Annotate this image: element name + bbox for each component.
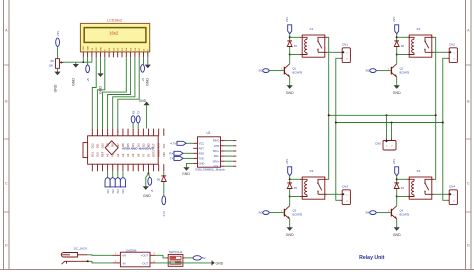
svg-text:RST: RST xyxy=(199,146,205,150)
svg-text:RX: RX xyxy=(169,152,173,156)
svg-text:SPK-: SPK- xyxy=(213,164,219,168)
net flag IN4 below Arduino xyxy=(120,171,125,193)
svg-text:RST2: RST2 xyxy=(152,150,156,157)
LCD pins 1-16 xyxy=(83,52,148,57)
svg-text:DTR: DTR xyxy=(214,144,219,148)
svg-text:5V: 5V xyxy=(146,154,150,157)
svg-text:R6: R6 xyxy=(50,59,54,63)
svg-text:TX: TX xyxy=(137,111,141,115)
svg-text:IN3: IN3 xyxy=(116,189,120,194)
power flag +5 at LCD VDD xyxy=(86,57,90,81)
svg-text:D3: D3 xyxy=(136,143,140,147)
LCD display LCD1 label xyxy=(107,19,122,23)
svg-text:IN1: IN1 xyxy=(106,189,110,194)
svg-text:3V3: 3V3 xyxy=(95,152,99,157)
Arduino bottom pin labels xyxy=(90,149,165,157)
U1 left pin names xyxy=(199,141,205,165)
transistor Q4 BC547B xyxy=(388,197,409,228)
svg-text:BC547B: BC547B xyxy=(400,213,410,217)
svg-text:A2: A2 xyxy=(116,153,120,157)
svg-text:DC_JACK: DC_JACK xyxy=(74,246,88,250)
svg-text:4.7V: 4.7V xyxy=(170,142,176,146)
connector CN4 xyxy=(447,184,457,204)
svg-text:VCC: VCC xyxy=(199,141,205,145)
svg-text:D4: D4 xyxy=(401,186,405,190)
wire +5V rail to relay K3 coil xyxy=(290,179,303,196)
svg-text:CN1: CN1 xyxy=(342,42,348,46)
wire +5V rail to relay K2 coil xyxy=(397,37,410,54)
svg-text:Q4: Q4 xyxy=(400,209,404,213)
net flag 4.7V below diode D6 xyxy=(162,182,166,217)
wire bus CN pin2 net xyxy=(335,122,444,124)
svg-text:CN3: CN3 xyxy=(342,184,348,188)
svg-text:RX0: RX0 xyxy=(157,143,161,149)
svg-text:D1: D1 xyxy=(294,44,298,48)
svg-text:+OUT: +OUT xyxy=(141,254,148,258)
diode D6 below Arduino VIN pin xyxy=(157,171,166,181)
ground GND at LM2596 -OUT xyxy=(156,260,224,265)
svg-text:U1: U1 xyxy=(206,131,210,135)
svg-text:GND: GND xyxy=(199,162,205,166)
relay K2 xyxy=(409,27,434,57)
wire LCD RS to Arduino xyxy=(92,57,96,128)
svg-text:BC547B: BC547B xyxy=(400,71,410,75)
svg-text:LCD16x2: LCD16x2 xyxy=(107,19,122,23)
ground GND at U1 GND pin xyxy=(182,163,193,176)
svg-text:VSS: VSS xyxy=(83,46,85,51)
svg-text:SPK+: SPK+ xyxy=(213,159,220,163)
transistor Q3 BC547B xyxy=(281,197,302,228)
svg-text:D2: D2 xyxy=(141,143,145,147)
svg-text:CN4: CN4 xyxy=(449,184,455,188)
svg-text:TX: TX xyxy=(170,157,174,161)
svg-text:TX1: TX1 xyxy=(162,143,166,148)
wire relay K2 NO contact to CN2 pin1 xyxy=(434,51,447,53)
net flag 4.7V at U1 VCC xyxy=(170,141,193,145)
net flag +5 and ground below Arduino 5V pin xyxy=(143,171,154,198)
net flag IN1 below Arduino xyxy=(105,171,110,193)
svg-text:D11: D11 xyxy=(95,143,99,148)
connector DC_JACK barrel xyxy=(61,253,78,265)
Arduino top pin labels xyxy=(90,143,165,149)
net flag IN3 below Arduino xyxy=(115,171,120,193)
svg-text:REF: REF xyxy=(101,151,105,157)
Arduino top pins xyxy=(92,129,163,136)
svg-text:4.7V: 4.7V xyxy=(162,211,166,217)
ground GND at LCD K xyxy=(145,57,151,86)
svg-text:MIC+: MIC+ xyxy=(213,149,220,153)
svg-text:BC547B: BC547B xyxy=(293,213,303,217)
svg-text:GSM_SIM800L_Module: GSM_SIM800L_Module xyxy=(195,168,225,172)
net flag IN2 at Q2 base xyxy=(366,69,391,73)
wire relay K2 common down to K4 common xyxy=(434,37,436,179)
wire LCD VSS/V0 to contrast net xyxy=(63,57,92,63)
svg-text:Q2: Q2 xyxy=(400,67,404,71)
svg-text:BC547B: BC547B xyxy=(293,71,303,75)
MCU module Arduino Nano V3 body xyxy=(83,136,158,164)
svg-text:+5V: +5V xyxy=(56,31,60,36)
svg-text:A1: A1 xyxy=(111,153,115,157)
caption Relay Unit xyxy=(359,255,385,261)
LCD display LCD1 body xyxy=(80,23,149,52)
svg-text:MIC-: MIC- xyxy=(214,154,220,158)
connector CN1 xyxy=(340,42,350,62)
svg-text:IN1: IN1 xyxy=(259,70,263,73)
U1 left pins xyxy=(193,143,197,163)
net flag IN1 at Q1 base xyxy=(259,69,284,73)
net flag IN3 at Q3 base xyxy=(259,211,284,215)
wire CN2 pin2 down to CN4 pin2 xyxy=(443,58,448,200)
regulator module LM2596 xyxy=(115,248,156,266)
svg-text:A3: A3 xyxy=(121,153,125,157)
power flag +5V for relay K1 xyxy=(285,17,292,38)
svg-text:K2: K2 xyxy=(417,27,421,31)
svg-text:Q3: Q3 xyxy=(293,209,297,213)
svg-text:K3: K3 xyxy=(310,169,314,173)
svg-text:10K: 10K xyxy=(49,63,54,67)
wire relay K1 NO contact to CN1 pin1 xyxy=(327,51,340,53)
svg-text:Q1: Q1 xyxy=(293,67,297,71)
wire DC_JACK to LM2596 xyxy=(77,255,115,263)
svg-text:RST: RST xyxy=(152,143,156,149)
svg-text:GND: GND xyxy=(139,99,147,103)
power flag +5V for relay K3 xyxy=(285,159,292,180)
svg-text:Relay Unit: Relay Unit xyxy=(359,255,385,261)
svg-text:+5V: +5V xyxy=(392,17,396,22)
svg-text:A7: A7 xyxy=(141,153,145,157)
svg-text:D10: D10 xyxy=(101,143,105,148)
svg-text:D: D xyxy=(467,243,470,247)
wire relay K1 common down to K3 common xyxy=(327,37,329,179)
svg-text:D5: D5 xyxy=(126,143,130,147)
svg-text:+5V: +5V xyxy=(392,159,396,164)
relay K4 xyxy=(409,169,434,199)
diode D3 flyback for K3 xyxy=(287,178,297,197)
ground GND under Q3 xyxy=(286,227,294,237)
ground GND under Q1 xyxy=(286,85,294,95)
svg-text:+IN: +IN xyxy=(122,254,126,258)
svg-text:IN2: IN2 xyxy=(366,70,370,73)
ground GND at LCD RW xyxy=(97,57,103,94)
svg-text:GND: GND xyxy=(286,91,294,95)
wire LCD E to Arduino xyxy=(97,57,104,128)
ground GND under potentiometer xyxy=(53,68,60,92)
ground GND under LCD pin1 xyxy=(72,62,79,86)
net flag 5V after switch xyxy=(185,256,206,260)
svg-text:GND: GND xyxy=(182,172,190,176)
svg-text:GND: GND xyxy=(393,91,401,95)
wire bus common contacts xyxy=(328,114,437,116)
svg-text:SWITCH1: SWITCH1 xyxy=(169,250,183,254)
ground GND above Arduino GND pin xyxy=(139,99,150,128)
wire LCD D6 to Arduino xyxy=(113,57,135,128)
diode D1 flyback for K1 xyxy=(287,36,297,55)
net flag TX above Arduino xyxy=(136,111,140,129)
relay K3 xyxy=(302,169,327,199)
svg-text:D6: D6 xyxy=(121,143,125,147)
wire LCD D7 to Arduino xyxy=(118,57,139,128)
svg-text:16x2: 16x2 xyxy=(109,30,119,35)
svg-text:GND2: GND2 xyxy=(157,149,161,157)
svg-text:+5: +5 xyxy=(86,78,90,82)
transistor Q1 BC547B xyxy=(281,55,302,86)
svg-text:IN4: IN4 xyxy=(121,189,125,194)
LCD pin name labels xyxy=(83,46,150,51)
svg-text:TXD: TXD xyxy=(199,157,204,161)
ground GND under Q4 xyxy=(393,227,401,237)
svg-text:A4: A4 xyxy=(126,153,130,157)
svg-text:CN2: CN2 xyxy=(449,42,455,46)
svg-text:A0: A0 xyxy=(106,153,110,157)
svg-text:GND: GND xyxy=(146,143,150,149)
svg-text:IN4: IN4 xyxy=(366,212,370,215)
net flag RX above Arduino xyxy=(131,110,135,128)
svg-text:D4: D4 xyxy=(131,143,135,147)
svg-text:+5V: +5V xyxy=(285,17,289,22)
svg-text:GND: GND xyxy=(393,233,401,237)
svg-text:C: C xyxy=(5,181,8,185)
svg-text:D2: D2 xyxy=(401,44,405,48)
svg-text:IN2: IN2 xyxy=(111,189,115,194)
wire +5V rail to relay K4 coil xyxy=(397,179,410,196)
wire LCD D4 to Arduino xyxy=(103,57,127,128)
svg-text:+5: +5 xyxy=(141,78,145,82)
svg-text:K1: K1 xyxy=(310,27,314,31)
svg-text:GND: GND xyxy=(53,84,57,92)
svg-text:RS: RS xyxy=(96,47,98,51)
svg-text:IN3: IN3 xyxy=(259,212,263,215)
U1 right pins with stubs xyxy=(221,141,237,167)
svg-text:D3: D3 xyxy=(294,186,298,190)
IC U1 GSM module body xyxy=(195,131,225,172)
relay K1 xyxy=(302,27,327,57)
svg-text:D9: D9 xyxy=(106,143,110,147)
net flag IN4 at Q4 base xyxy=(366,211,391,215)
power flag +5 at LCD A xyxy=(141,57,145,81)
svg-text:C: C xyxy=(467,181,470,185)
switch SWITCH1 xyxy=(166,250,185,266)
svg-text:CN5: CN5 xyxy=(375,142,381,146)
wire LM2596 +OUT to switch xyxy=(156,255,167,258)
wire relay K4 NO contact to CN4 pin1 xyxy=(434,193,447,195)
svg-text:RING: RING xyxy=(213,139,219,143)
svg-text:A6: A6 xyxy=(136,153,140,157)
svg-text:-OUT: -OUT xyxy=(142,261,149,265)
connector CN5 xyxy=(375,115,396,150)
svg-text:VIN: VIN xyxy=(162,152,166,157)
Arduino bottom pins xyxy=(92,164,163,171)
net flag IN2 below Arduino xyxy=(110,171,115,193)
svg-text:D6: D6 xyxy=(157,178,161,182)
svg-text:GND: GND xyxy=(216,261,224,265)
ground GND under Q2 xyxy=(393,85,401,95)
diode D2 flyback for K2 xyxy=(394,36,404,55)
transistor Q2 BC547B xyxy=(388,55,409,86)
net flag RX at U1 RXD xyxy=(169,151,193,155)
svg-text:D8: D8 xyxy=(111,143,115,147)
svg-text:A5: A5 xyxy=(131,153,135,157)
net flag TX at U1 TXD xyxy=(170,156,193,160)
svg-text:5V: 5V xyxy=(202,256,206,260)
wire +5V rail to relay K1 coil xyxy=(290,37,303,54)
potentiometer R6 10K xyxy=(49,59,64,69)
connector CN3 xyxy=(340,184,350,204)
wire CN1 pin2 down to CN3 pin2 xyxy=(336,58,341,200)
wire LCD D5 to Arduino xyxy=(108,57,131,128)
power flag +5V for relay K4 xyxy=(392,159,399,180)
svg-text:RX: RX xyxy=(131,110,135,114)
U1 right pin names xyxy=(213,139,220,169)
svg-text:GND: GND xyxy=(286,233,294,237)
svg-text:+5V: +5V xyxy=(285,159,289,164)
svg-text:-IN: -IN xyxy=(122,261,126,265)
svg-text:K4: K4 xyxy=(417,169,421,173)
power flag +5V for relay K2 xyxy=(392,17,399,38)
connector DC_JACK label xyxy=(74,246,88,250)
svg-text:GND: GND xyxy=(146,78,150,86)
svg-text:GND: GND xyxy=(72,78,76,86)
diode D4 flyback for K4 xyxy=(394,178,404,197)
svg-text:D12: D12 xyxy=(90,143,94,148)
svg-text:D13: D13 xyxy=(90,152,94,157)
svg-text:VDD: VDD xyxy=(88,46,90,51)
svg-text:RXD: RXD xyxy=(199,151,205,155)
svg-text:D7: D7 xyxy=(116,143,120,147)
svg-text:GND: GND xyxy=(143,194,151,198)
connector CN2 xyxy=(447,42,457,62)
wire relay K3 NO contact to CN3 pin1 xyxy=(327,193,340,195)
power flag +5V above potentiometer xyxy=(56,31,60,59)
svg-text:D: D xyxy=(5,243,8,247)
